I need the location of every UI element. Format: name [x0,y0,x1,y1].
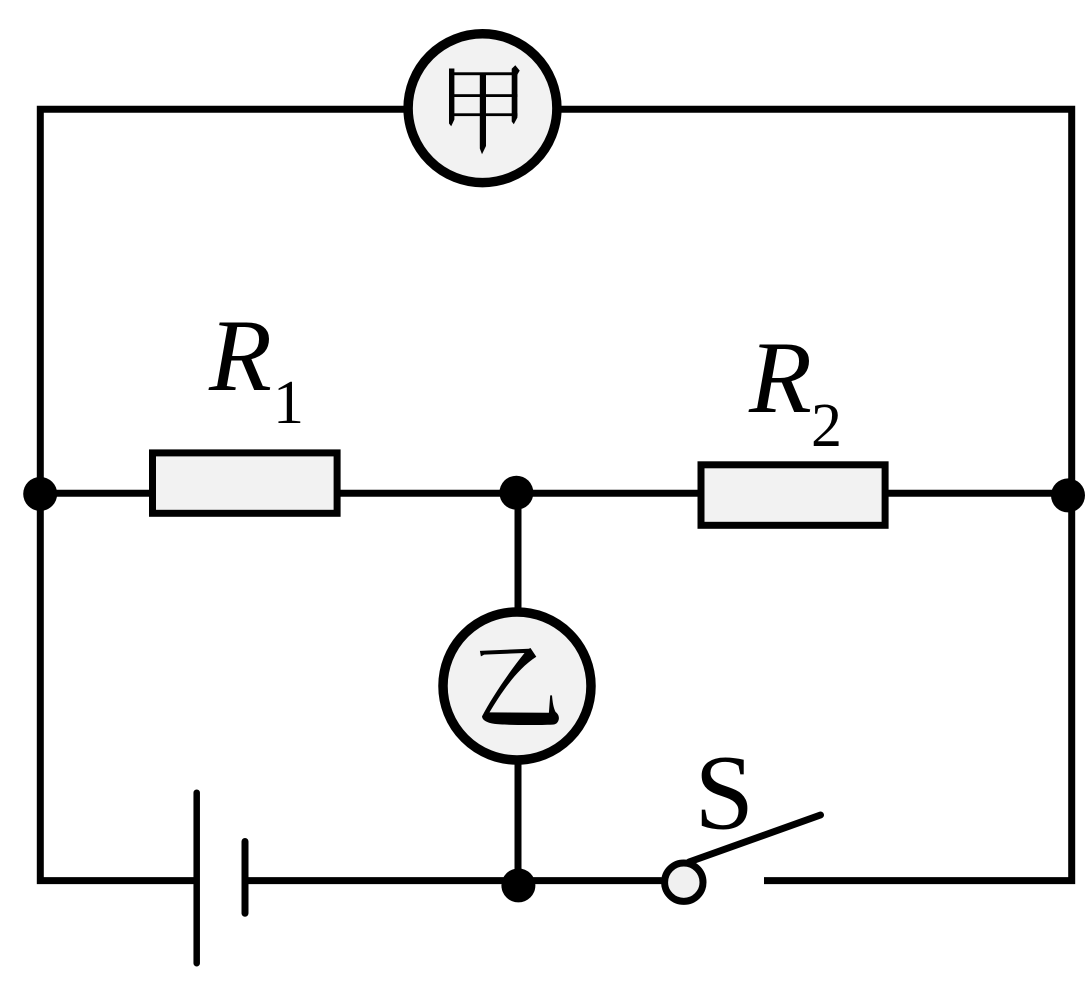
乙 glyph stroke [480,648,559,725]
svg-text:1: 1 [273,369,304,437]
ammeter U1 (meter 甲) [408,34,557,183]
甲 left vertical [449,69,454,127]
junction node left [23,477,57,511]
甲 bottom bar [449,113,518,116]
甲 right vertical with arrow serif [512,65,520,124]
wire: top-left + left side + bottom-left loop [40,109,403,880]
甲 top bar [449,72,518,75]
switch S pivot contact [665,863,703,901]
svg-text:2: 2 [811,392,842,460]
switch S lever arm [689,815,821,862]
svg-text:R: R [208,299,272,413]
battery short plate [242,842,249,914]
resistor R1 body [153,453,338,513]
junction node right [1051,478,1085,512]
svg-text:S: S [695,735,755,853]
wire: center vertical branch through meter [515,493,522,885]
wire: battery to switch segment [248,877,661,884]
voltmeter U2 (meter 乙) [443,612,591,760]
甲 middle bar [449,94,518,97]
wire: top-right + right side + bottom-right loop [562,109,1072,880]
resistor R2 body [701,465,885,526]
svg-text:R: R [748,321,812,435]
battery long plate [193,793,200,964]
junction node middle [499,476,533,510]
wire: middle horizontal rail [40,490,1068,497]
甲 center vertical stem [480,74,486,155]
junction node bottom [501,868,535,902]
